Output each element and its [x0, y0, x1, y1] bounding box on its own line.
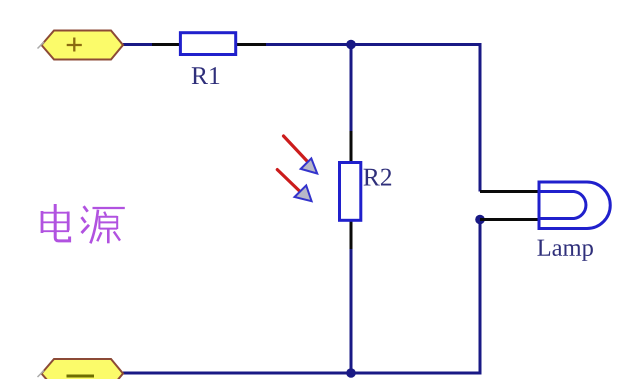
light arrow 2 (lower red arrow onto photoresistor): [277, 170, 311, 202]
junction: node at lamp lower pin on right rail: [475, 215, 485, 225]
wire: R1 right pin to top junction to top-right corner and down right rail: [265, 45, 480, 192]
light arrow 1 (upper red arrow onto photoresistor): [284, 136, 318, 174]
net label: 电源 (power source, hand-drawn glyphs): [42, 204, 125, 243]
wire: top rail from port P+ to R1 pin: [123, 43, 154, 46]
resistor R1: [152, 33, 266, 84]
junction: top node where R2 branch meets top rail: [346, 40, 356, 50]
wire: bottom rail from port P- to bottom-right corner up to lamp: [123, 220, 480, 374]
glyph 源: [82, 206, 125, 243]
glyph 电: [42, 204, 70, 241]
wire: vertical R2 branch upper segment: [350, 45, 353, 133]
resistor R2 (photoresistor): [340, 131, 392, 249]
port P+ (power supply plus terminal): [38, 31, 124, 60]
wire: vertical R2 branch lower segment: [350, 246, 353, 373]
junction: bottom node where R2 branch meets bottom rail: [346, 368, 356, 378]
lamp DS1: [480, 182, 610, 261]
port P- (power supply minus terminal): [38, 359, 124, 379]
